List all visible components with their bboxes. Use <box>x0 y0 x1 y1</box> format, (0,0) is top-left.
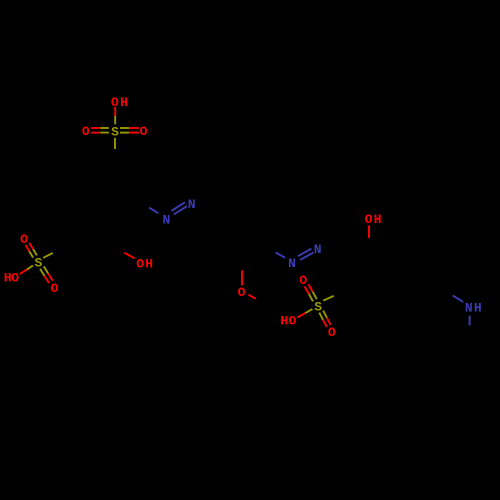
methoxy O: C-O stub <box>241 270 243 285</box>
hydroxyl OH left: C-O stub <box>124 253 134 259</box>
svg-text:N: N <box>188 197 196 212</box>
svg-text:H: H <box>280 314 288 329</box>
svg-text:O: O <box>82 124 90 139</box>
methoxy O: O-CH3 stub <box>249 295 256 299</box>
sulfo group S1: S=O left double bond <box>91 128 109 133</box>
svg-text:S: S <box>314 299 322 314</box>
azo group 1: C-N stub <box>149 208 158 214</box>
svg-text:O: O <box>328 325 336 340</box>
azo group 1: N=N double bond <box>172 202 188 214</box>
svg-text:O: O <box>365 212 373 227</box>
svg-text:H: H <box>374 212 382 227</box>
sulfo group S3: S=O top double bond <box>305 284 317 301</box>
sulfo group S2: S-C stub <box>43 253 53 258</box>
hydroxyl OH right: OH label <box>365 212 382 227</box>
svg-text:O: O <box>136 256 144 271</box>
svg-text:N: N <box>162 213 170 228</box>
svg-text:S: S <box>111 124 119 139</box>
svg-text:O: O <box>140 124 148 139</box>
sulfo group S2: HO label <box>4 271 20 286</box>
svg-text:O: O <box>288 314 296 329</box>
azo group 2: C-N stub <box>276 253 286 258</box>
svg-text:O: O <box>111 95 119 110</box>
svg-text:H: H <box>120 95 128 110</box>
svg-text:H: H <box>145 256 153 271</box>
sulfo group S3: HO label <box>280 314 296 329</box>
amine NH: N-CH3 stub <box>469 316 471 326</box>
sulfo group S2: S=O bottom double bond <box>40 266 53 283</box>
sulfo group S1: S=O right double bond <box>120 128 139 133</box>
amine NH: NH label <box>465 301 482 316</box>
hydroxyl OH left: OH label <box>136 256 153 271</box>
svg-text:N: N <box>314 242 322 257</box>
svg-text:O: O <box>11 271 19 286</box>
azo group 2: N=N double bond <box>298 249 314 260</box>
svg-text:O: O <box>238 285 246 300</box>
hydroxyl OH right: C-O stub <box>368 225 370 237</box>
amine NH: C-N stub <box>453 296 463 302</box>
svg-text:O: O <box>50 281 58 296</box>
svg-text:O: O <box>299 273 307 288</box>
sulfo group S1: S-C stub <box>114 138 116 149</box>
svg-text:H: H <box>474 301 482 316</box>
sulfo group S1: S-OH bond <box>114 107 116 125</box>
sulfo group S2: S-OH bond <box>20 266 33 274</box>
sulfo group S3: S=O bottom double bond <box>319 311 330 327</box>
svg-text:O: O <box>20 232 28 247</box>
sulfo group S3: S-OH bond <box>297 309 312 317</box>
svg-text:N: N <box>288 256 296 271</box>
sulfo group S2: S=O top double bond <box>26 243 37 258</box>
svg-text:N: N <box>465 301 473 316</box>
svg-text:S: S <box>34 256 42 271</box>
sulfo group S1: OH label <box>111 95 128 110</box>
sulfo group S3: S-C stub <box>323 296 334 301</box>
